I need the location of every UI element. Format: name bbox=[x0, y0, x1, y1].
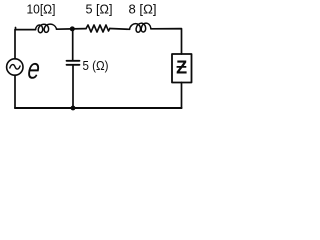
source e (AC) circle bbox=[7, 59, 23, 75]
wire L2 to top-right corner and down to box bbox=[151, 29, 182, 54]
impedance box Z bbox=[172, 54, 192, 83]
inductor L2 (8 ohm) bbox=[130, 23, 151, 32]
wire junction to resistor bbox=[72, 28, 86, 30]
inductor L1 (10 ohm) bbox=[36, 24, 57, 33]
bottom wire bbox=[15, 107, 182, 109]
svg-text:5 (Ω): 5 (Ω) bbox=[83, 59, 109, 73]
capacitor bottom lead bbox=[72, 65, 74, 108]
capacitor top lead bbox=[72, 29, 74, 61]
svg-text:5 [Ω]: 5 [Ω] bbox=[86, 2, 113, 16]
node junction bottom bbox=[71, 106, 76, 111]
svg-text:Ƶ: Ƶ bbox=[176, 58, 187, 78]
wire resistor to L2 bbox=[110, 28, 130, 31]
wire L1 to junction bbox=[57, 28, 73, 30]
resistor R1 (5 ohm) bbox=[86, 25, 110, 32]
node junction top bbox=[70, 26, 75, 31]
svg-text:e: e bbox=[26, 54, 41, 86]
wire left vertical lower bbox=[14, 75, 16, 108]
svg-text:8 [Ω]: 8 [Ω] bbox=[129, 2, 157, 16]
wire top-left segment bbox=[16, 28, 36, 30]
wire left vertical upper bbox=[14, 30, 16, 59]
capacitor C1 plates bbox=[67, 61, 80, 65]
wire box to bottom rail bbox=[181, 83, 183, 109]
source sine symbol bbox=[10, 65, 20, 70]
svg-text:10[Ω]: 10[Ω] bbox=[27, 2, 56, 16]
